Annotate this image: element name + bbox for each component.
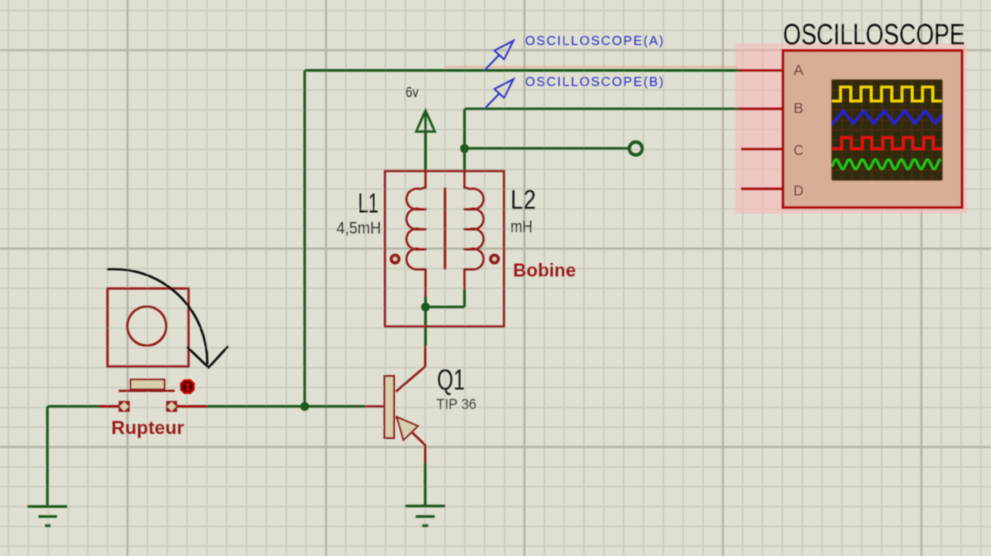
- rupteur pin stub right: [177, 405, 208, 408]
- transistor Q1 base bar: [385, 376, 395, 438]
- polarity dot L2: [491, 255, 499, 263]
- rupteur terminal circle left: [119, 401, 130, 412]
- wire net A horizontal: [305, 69, 739, 72]
- inductor L2 lead top: [463, 171, 465, 189]
- waveform channel A yellow: [832, 87, 942, 101]
- oscilloscope screen grid: [832, 80, 942, 180]
- svg-text:6v: 6v: [406, 84, 419, 101]
- svg-text:L2: L2: [511, 184, 537, 215]
- wire net A vertical drop to base node: [303, 70, 306, 406]
- wire rupteur to base: [177, 405, 365, 408]
- rupteur pin stub left: [99, 405, 120, 408]
- wire net B vertical segment: [463, 109, 466, 171]
- svg-text:Rupteur: Rupteur: [111, 417, 184, 438]
- polarity dot L1: [391, 255, 399, 263]
- transformer bottom link wire: [426, 289, 465, 307]
- wire rupteur left: [47, 406, 119, 505]
- rupteur cam circle: [127, 307, 166, 346]
- waveform channel D green: [832, 160, 941, 169]
- rupteur actuator dot: [180, 379, 195, 394]
- wire net B horizontal: [465, 107, 740, 110]
- svg-text:OSCILLOSCOPE(B): OSCILLOSCOPE(B): [525, 74, 664, 89]
- svg-text:Q1: Q1: [437, 365, 465, 397]
- svg-text:A: A: [794, 62, 804, 79]
- inductor L2 lead bottom: [463, 269, 465, 290]
- svg-text:TIP 36: TIP 36: [436, 396, 476, 413]
- svg-text:B: B: [794, 100, 804, 117]
- oscilloscope pin B stub: [739, 107, 783, 110]
- power terminal 6v wire: [424, 132, 427, 172]
- inductor L2 coil: [463, 187, 483, 271]
- voltage probe B: [485, 79, 514, 109]
- wire branch to antenna terminal: [465, 147, 630, 150]
- waveform channel B blue: [832, 111, 942, 123]
- svg-text:OSCILLOSCOPE: OSCILLOSCOPE: [783, 19, 965, 52]
- open terminal circle: [629, 142, 642, 155]
- svg-text:4,5mH: 4,5mH: [337, 219, 382, 238]
- oscilloscope pin C stub: [741, 148, 783, 151]
- rotation arrow arc: [107, 269, 207, 364]
- node junction dot B branch: [460, 144, 469, 153]
- voltage probe A: [485, 41, 514, 71]
- ground left: [27, 507, 67, 526]
- transistor Q1 emitter lead: [396, 417, 425, 464]
- transformer core: [444, 188, 447, 270]
- node junction dot base wire: [300, 402, 309, 411]
- ground right: [405, 506, 445, 526]
- rupteur button bar: [119, 390, 175, 392]
- rotation arrow head: [187, 346, 228, 367]
- node junction dot transformer bottom: [421, 303, 430, 312]
- oscilloscope body: [783, 51, 962, 208]
- rupteur button cap: [131, 380, 165, 390]
- svg-text:OSCILLOSCOPE(A): OSCILLOSCOPE(A): [525, 33, 664, 48]
- wire emitter to ground: [424, 463, 427, 505]
- svg-text:mH: mH: [511, 218, 533, 236]
- net A highlight line: [445, 66, 737, 68]
- svg-text:D: D: [794, 183, 804, 200]
- rupteur terminal circle right: [166, 401, 177, 412]
- transformer TR1 box: [385, 171, 504, 327]
- inductor L1 coil: [406, 187, 426, 271]
- power arrow symbol: [416, 110, 435, 171]
- inductor L1 lead bottom: [424, 269, 426, 297]
- transistor Q1 emitter arrow: [397, 417, 418, 440]
- transistor Q1 collector lead: [396, 346, 425, 392]
- wire transformer to collector: [424, 307, 427, 346]
- svg-text:Bobine: Bobine: [513, 259, 576, 280]
- svg-text:C: C: [794, 142, 804, 159]
- inductor L1 lead top: [424, 171, 426, 189]
- transistor Q1 base pin: [365, 405, 385, 407]
- oscilloscope screen: [832, 80, 942, 180]
- rupteur cam square: [108, 289, 189, 367]
- oscilloscope selection highlight: [735, 44, 967, 214]
- svg-text:L1: L1: [358, 187, 379, 218]
- waveform channel C red: [832, 138, 942, 149]
- oscilloscope pin D stub: [741, 187, 783, 190]
- oscilloscope pin A stub: [739, 69, 783, 72]
